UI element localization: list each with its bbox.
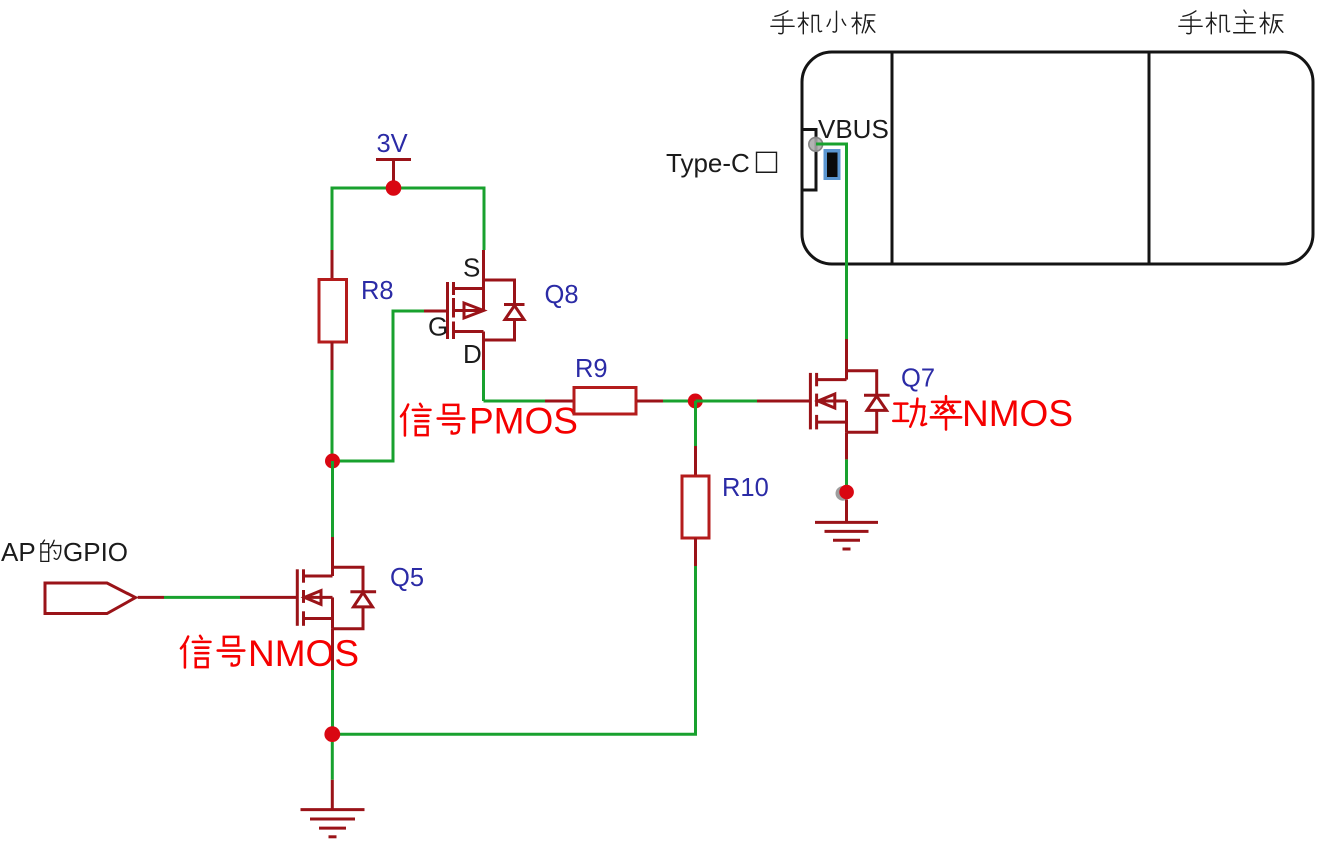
Type-C connector bracket (802, 130, 816, 191)
label Q8 (545, 281, 579, 309)
wire R10 to bottom rail (340, 566, 696, 734)
svg-text:VBUS: VBUS (818, 114, 889, 144)
ground at Q7 (815, 500, 878, 550)
wire node A down to Q5 drain (331, 461, 334, 537)
node A junction (325, 454, 340, 469)
wire node D to ground (331, 742, 334, 780)
pin label D (463, 339, 482, 369)
board divider 2 (1148, 52, 1151, 264)
transistor Q5 (NMOS) (297, 537, 332, 629)
phone board outline (802, 52, 1313, 264)
body diode of Q5 (333, 567, 377, 628)
wire Q5 source to node D (331, 629, 334, 727)
resistor R10 (682, 446, 709, 566)
label VBUS (818, 114, 889, 144)
VBUS pad (blue/black) (824, 149, 841, 180)
wire port to Q5 gate (138, 596, 296, 599)
node 3V junction (386, 180, 402, 196)
resistor R9 (545, 388, 663, 415)
svg-text:Q5: Q5 (390, 564, 424, 592)
svg-text:S: S (463, 253, 480, 283)
port AP的GPIO (45, 583, 136, 614)
wire Q8 drain to R9 (484, 370, 546, 401)
wire node B down to R10 (694, 401, 697, 446)
body diode of Q7 (847, 371, 890, 433)
board divider 1 (891, 52, 894, 264)
svg-text:R8: R8 (361, 277, 394, 305)
connector pin circle (809, 137, 823, 151)
svg-text:AP: AP (1, 537, 36, 567)
resistor R8 (319, 250, 347, 370)
svg-text:Q7: Q7 (901, 365, 935, 393)
label 功率NMOS (893, 393, 1073, 434)
wire node A to Q8 gate (333, 311, 425, 461)
label Type-C口 (666, 148, 776, 178)
node C junction (836, 485, 854, 501)
svg-text:D: D (463, 339, 482, 369)
node B junction (688, 394, 703, 409)
label Q5 (390, 564, 424, 592)
wire Q7 source to node C (845, 432, 848, 485)
ground at Q5 (301, 780, 365, 837)
svg-text:3V: 3V (377, 130, 408, 158)
pin label S (463, 253, 480, 283)
svg-text:PMOS: PMOS (469, 401, 578, 442)
wire R8 to node A (331, 370, 334, 455)
node D junction (324, 726, 340, 742)
wire R9 to node B (663, 400, 688, 403)
svg-text:Type-C: Type-C (666, 148, 750, 178)
label 3V (377, 130, 408, 158)
body diode of Q8 (484, 280, 525, 340)
transistor Q7 (NMOS) (810, 339, 846, 432)
transistor Q8 (PMOS) (424, 250, 484, 370)
svg-text:Q8: Q8 (545, 281, 579, 309)
label 手机小板 (771, 11, 875, 34)
power symbol 3V (376, 160, 411, 187)
label R9 (575, 355, 608, 383)
svg-text:NMOS: NMOS (962, 393, 1073, 434)
svg-text:GPIO: GPIO (63, 537, 128, 567)
wire node B to Q7 gate (695, 400, 809, 403)
label Q7 (901, 365, 935, 393)
svg-text:G: G (428, 312, 448, 342)
label 手机主板 (1179, 10, 1283, 34)
svg-text:R9: R9 (575, 355, 608, 383)
wire 3V rail (332, 188, 484, 250)
svg-text:NMOS: NMOS (248, 633, 359, 674)
label 信号PMOS (401, 401, 578, 442)
label R10 (722, 474, 769, 502)
pin label G (428, 312, 448, 342)
label R8 (361, 277, 394, 305)
label 信号NMOS (181, 633, 359, 674)
svg-text:R10: R10 (722, 474, 769, 502)
wire VBUS to Q7 drain (816, 144, 847, 339)
label AP的GPIO (1, 537, 128, 567)
